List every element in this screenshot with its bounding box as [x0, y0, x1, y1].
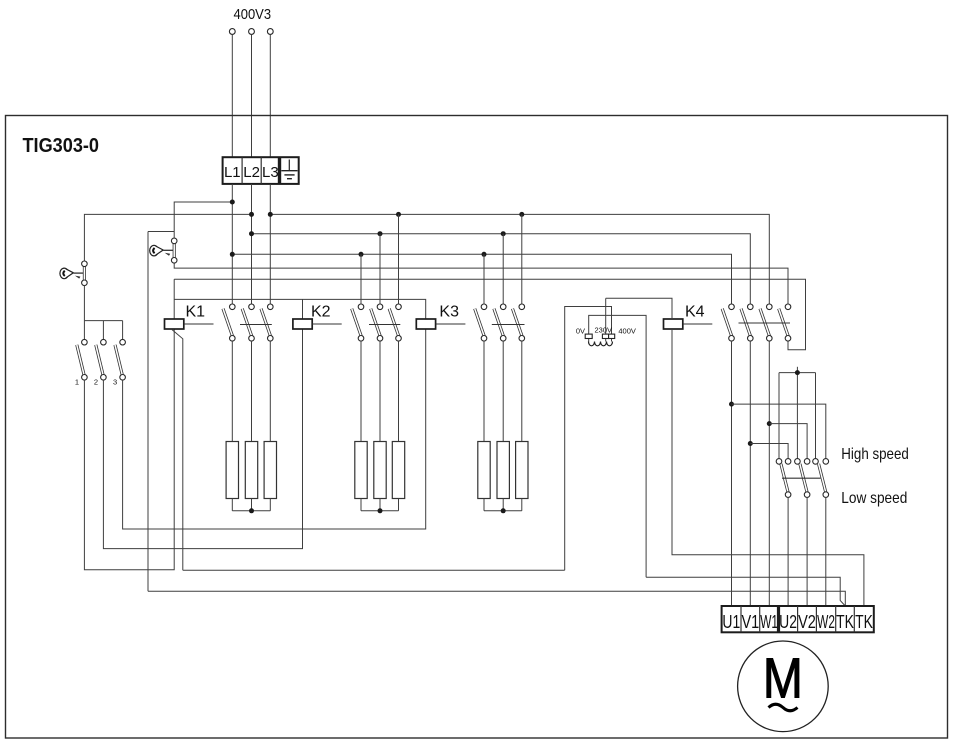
svg-text:K3: K3 [439, 304, 459, 321]
wire K1 return rail [183, 569, 565, 571]
node F1 star point [249, 508, 254, 513]
K1 main contact 1 [223, 304, 235, 341]
wire K4 contact2 to V1 [749, 341, 751, 606]
node U1 branch [729, 402, 734, 407]
contactor coil K3 [416, 319, 435, 329]
label K2 [311, 304, 331, 321]
K1 linkage [184, 323, 214, 325]
node L2 bus tap [249, 231, 254, 236]
F1 heater 2 [245, 341, 257, 511]
selector pole 3 [115, 339, 125, 380]
motor terminal strip U1 V1 W1 U2 V2 W2 TK TK [722, 606, 874, 632]
K2 linkage [312, 323, 342, 325]
svg-text:TK: TK [855, 611, 873, 632]
F2 heater 3 [392, 341, 404, 511]
wire U1 branch to high speed contact 3 [732, 404, 826, 459]
wire K4 contact1 to U1 [731, 341, 733, 606]
wire rail L2 to key S1 [84, 214, 251, 261]
speed selector contact 1 [776, 459, 791, 498]
wire V1 branch to high speed contact 1 [750, 444, 788, 459]
label selector position 1 [75, 378, 79, 387]
wire rail L2 phase bus [252, 234, 751, 305]
label 400V [618, 326, 636, 335]
wire K3 contact 1 drop [483, 254, 485, 304]
selector pole 1 [77, 339, 87, 380]
node L1 tap [230, 200, 235, 205]
svg-text:V1: V1 [741, 611, 759, 632]
label selector position 2 [94, 378, 98, 387]
wire K1 coil riser [173, 279, 175, 319]
F1 heater 3 [264, 341, 276, 511]
wire L1 drop [231, 184, 233, 304]
node K3 pole3 tap [519, 212, 524, 217]
selector pole 2 [96, 339, 106, 380]
wire control bus upper [174, 279, 805, 350]
svg-text:0V: 0V [576, 326, 585, 335]
K2 contact linkage [369, 324, 400, 326]
wire U2 drop [787, 497, 789, 606]
speed selector contact 3 [813, 459, 829, 498]
K4 linkage [683, 323, 713, 325]
node L2 tap [249, 212, 254, 217]
svg-text:L3: L3 [262, 164, 279, 181]
F2 heater 1 [355, 341, 367, 511]
transformer terminal 230V [602, 334, 608, 338]
supply terminal L2 [249, 29, 255, 158]
K2 main contact 3 [389, 304, 401, 341]
wire control bus lower [174, 299, 426, 319]
supply label 400V3 [234, 6, 272, 23]
key switch S2 [150, 232, 177, 264]
K3 main contact 3 [513, 304, 525, 341]
wire rail L1 phase bus [232, 254, 731, 304]
K2 main contact 2 [371, 304, 383, 341]
svg-text:230V: 230V [595, 326, 613, 335]
wire K4 contact3 to W1 [768, 341, 770, 606]
node K3 pole2 tap [501, 231, 506, 236]
K3 main contact 2 [494, 304, 506, 341]
wire K2 contact 1 drop [360, 254, 362, 304]
key switch S1 [60, 261, 87, 286]
speed selector linkage [782, 477, 821, 479]
label K3 [439, 304, 459, 321]
wire K1 coil bottom diagonal [172, 330, 183, 571]
motor letter M [763, 647, 803, 711]
F3 heater 3 [516, 341, 528, 511]
wire V2 drop [806, 497, 808, 606]
K2 main contact 1 [352, 304, 364, 341]
wire L2 drop [251, 184, 253, 304]
svg-text:K4: K4 [685, 304, 705, 321]
supply terminal L3 [267, 29, 273, 158]
wire K2 contact 3 drop [398, 214, 400, 304]
svg-text:1: 1 [75, 378, 79, 387]
K4 main contact 2 [741, 304, 753, 341]
F3 heater 2 [497, 341, 509, 511]
svg-text:W2: W2 [817, 611, 835, 632]
wire key S2 output rail [174, 263, 788, 304]
svg-text:U2: U2 [779, 611, 797, 632]
svg-text:K2: K2 [311, 304, 331, 321]
contactor coil K4 [664, 319, 683, 329]
F2 heater 2 [374, 341, 386, 511]
F3 heater star bus [484, 510, 522, 512]
label 0V [576, 326, 585, 335]
svg-text:K1: K1 [186, 304, 206, 321]
K4 contact linkage [739, 322, 791, 324]
node K2 pole2 tap [378, 231, 383, 236]
transformer T1 winding [589, 342, 613, 346]
svg-text:V2: V2 [798, 611, 816, 632]
node K2 pole1 tap [359, 252, 364, 257]
node V1 branch [748, 441, 753, 446]
node W1 branch [767, 421, 772, 426]
svg-text:TIG303-0: TIG303-0 [23, 135, 100, 157]
wire W2 drop [825, 497, 827, 606]
motor tilde [769, 704, 798, 711]
svg-text:400V3: 400V3 [234, 6, 272, 23]
wire S1 to selector [83, 285, 85, 320]
wire 0V rail to TK1 [646, 577, 845, 606]
K3 main contact 1 [475, 304, 487, 341]
selector switch common bus [84, 321, 122, 340]
svg-text:TK: TK [836, 611, 854, 632]
wire K3 contact 2 drop [502, 234, 504, 305]
wire selector pole2 down [103, 329, 302, 549]
speed selector contact 2 [795, 459, 810, 498]
contactor coil K1 [165, 319, 184, 329]
node K3 pole1 tap [482, 252, 487, 257]
transformer T1 wiring [565, 298, 672, 577]
label Low speed [841, 490, 907, 507]
wire K4 coil to TK2 [672, 329, 864, 606]
svg-text:L1: L1 [224, 164, 241, 181]
label High speed [841, 446, 909, 463]
K1 main contact 2 [242, 304, 254, 341]
K4 main contact 1 [722, 304, 734, 341]
label 230V [595, 326, 613, 335]
K3 contact linkage [492, 324, 525, 326]
node star bridge [795, 370, 800, 375]
wire selector pole3 down [123, 329, 426, 529]
svg-text:W1: W1 [760, 611, 778, 632]
K4 main contact 3 [760, 304, 772, 341]
svg-text:2: 2 [94, 378, 98, 387]
K1 main contact 3 [261, 304, 273, 341]
label K4 [685, 304, 705, 321]
F2 heater star bus [361, 510, 399, 512]
wire rail L3 phase bus [270, 214, 769, 304]
title TIG303-0 [23, 135, 100, 157]
svg-text:400V: 400V [618, 326, 636, 335]
K4 main contact 4 [779, 304, 791, 341]
wire selector pole1 down [84, 329, 174, 570]
node L3 tap [268, 212, 273, 217]
node K2 pole3 tap [396, 212, 401, 217]
wire K3 contact 3 drop [521, 214, 523, 304]
node L1 bus tap [230, 252, 235, 257]
ground symbol PE [281, 160, 297, 179]
svg-text:U1: U1 [722, 611, 740, 632]
contactor coil K2 [293, 319, 312, 329]
motor M1 circle [738, 641, 829, 732]
F3 heater 1 [478, 341, 490, 511]
supply terminal L1 [229, 29, 235, 158]
F1 heater star bus [232, 510, 270, 512]
wire L1 rail to TK1 [148, 591, 845, 606]
svg-text:Low speed: Low speed [841, 490, 907, 507]
wire star bridge bus [779, 367, 816, 459]
node F2 star point [378, 508, 383, 513]
svg-text:M: M [763, 647, 803, 711]
K3 linkage [436, 323, 466, 325]
wire W1 branch to high speed contact 2 [769, 424, 807, 459]
label selector position 3 [113, 378, 117, 387]
terminal block X0 L1 L2 L3 PE [223, 157, 299, 184]
svg-text:3: 3 [113, 378, 117, 387]
svg-text:L2: L2 [243, 164, 260, 181]
wire K2 coil top riser [302, 299, 304, 319]
label K1 [186, 304, 206, 321]
K1 contact linkage [240, 324, 272, 326]
wire K2 contact 2 drop [379, 234, 381, 305]
transformer terminal 400V [609, 334, 615, 338]
transformer terminal 0V [585, 334, 592, 338]
F1 heater 1 [226, 341, 238, 511]
wire L3 drop [269, 184, 271, 304]
svg-text:High speed: High speed [841, 446, 909, 463]
wire rail L1 to key S2 net [148, 202, 232, 591]
node F3 star point [501, 508, 506, 513]
